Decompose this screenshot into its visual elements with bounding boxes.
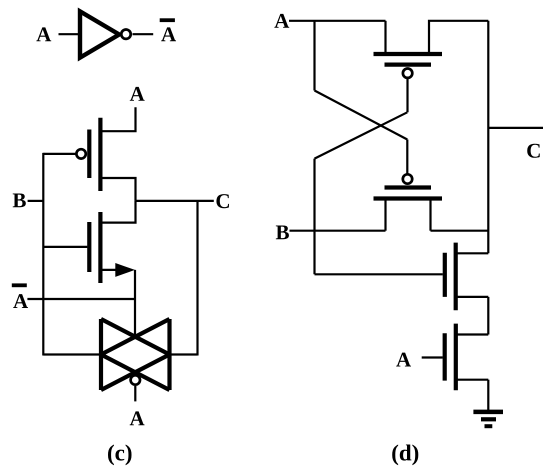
wire right rail (C to TG) <box>196 201 198 356</box>
wire bottom pass to right rail <box>431 230 489 232</box>
transistor upper NMOS channel bar (d) <box>454 243 458 311</box>
wire C output stub (d) <box>488 127 543 129</box>
caption (d) <box>392 444 398 465</box>
transistor PMOS gate bar (c) <box>87 130 91 179</box>
wire A to PMOS source <box>100 107 136 131</box>
label B <box>13 193 26 207</box>
wire upper NMOS source stub <box>456 296 489 298</box>
label B (d) <box>276 225 289 239</box>
arrow NMOS source <box>115 263 135 277</box>
transmission gate TG1 control bubble <box>131 375 140 384</box>
wire upper NMOS drain stub <box>456 252 489 254</box>
transistor lower NMOS gate bar (d) <box>443 333 447 380</box>
inverter U1 output bubble <box>121 30 130 39</box>
wire B input <box>28 200 44 202</box>
wire left rail B <box>42 153 44 356</box>
label Abar input (c) <box>12 283 28 308</box>
wire PMOS gate to B rail <box>43 153 75 155</box>
wire lower NMOS source stub <box>456 379 489 381</box>
label Abar (inverter output) <box>160 18 176 41</box>
wire cross diagonal 1 <box>315 91 408 140</box>
transistor top pass gate bubble (d) <box>403 69 412 78</box>
wire PMOS drain down to node C <box>100 178 136 201</box>
label A (TG control) <box>130 411 145 425</box>
wire B input (d) <box>290 230 386 232</box>
label A (inverter input) <box>36 27 51 41</box>
wire NMOS drain to node C <box>100 201 136 223</box>
wire NMOS stack link <box>487 297 489 335</box>
wire inverter output <box>133 33 154 35</box>
wire center vertical to TG <box>134 270 136 338</box>
transistor bottom pass M4 (d) <box>374 188 443 231</box>
label A (lower NMOS gate) <box>396 353 411 367</box>
transmission gate TG1 <box>101 319 170 390</box>
wire lower NMOS drain stub <box>456 333 489 335</box>
wire top pass gate down <box>406 79 408 112</box>
transistor NMOS channel bar (c) <box>98 212 102 283</box>
wire cross left vertical top <box>313 21 315 91</box>
inverter U1 triangle <box>80 11 119 57</box>
wire lower NMOS gate <box>422 356 443 358</box>
wire node C horizontal <box>136 200 214 202</box>
wire TG right terminal <box>170 353 198 355</box>
wire inverter input <box>59 33 81 35</box>
transistor PMOS gate bubble (c) <box>76 149 85 158</box>
label A (c top supply) <box>130 87 145 101</box>
transistor NMOS gate bar (c) <box>87 222 91 272</box>
label C (c) <box>216 194 229 208</box>
wire TG left terminal <box>43 353 101 355</box>
transistor lower pass gate bubble (d) <box>403 174 412 183</box>
wire left vertical (d) <box>313 159 315 275</box>
transistor PMOS channel bar (c) <box>98 118 102 191</box>
wire top right corner <box>429 21 488 52</box>
wire TG control A <box>134 386 136 401</box>
ground <box>473 412 503 426</box>
wire upper NMOS gate to left rail <box>315 273 443 275</box>
wire to ground <box>487 380 489 410</box>
wire to lower pass gate bubble <box>406 140 408 175</box>
wire cross diagonal 2 <box>315 112 408 158</box>
caption (c) <box>108 444 114 465</box>
wire NMOS source stub <box>100 269 117 271</box>
transistor upper NMOS gate bar (d) <box>443 253 447 297</box>
label A (d left input) <box>274 14 289 28</box>
transistor lower NMOS channel bar (d) <box>454 324 458 391</box>
wire NMOS gate to B rail <box>43 246 87 248</box>
wire A input (d) <box>289 20 386 22</box>
wire Abar input <box>27 298 135 300</box>
label C (d) <box>527 144 540 158</box>
transistor top pass M3 (d) <box>374 21 443 65</box>
wire right rail (d) <box>487 21 489 254</box>
